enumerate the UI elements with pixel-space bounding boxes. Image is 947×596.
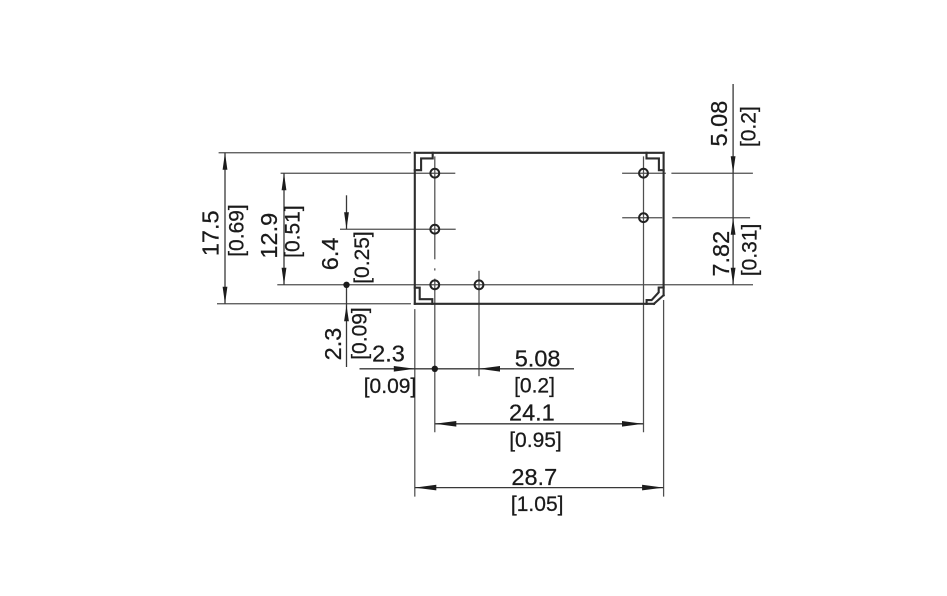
pin hole top-left xyxy=(430,169,439,178)
arrow right 5.08 down xyxy=(731,156,736,173)
wire top hole row right xyxy=(622,172,666,174)
pin hole right-second xyxy=(639,213,648,222)
arrow 17.5 top xyxy=(223,153,228,170)
wire bottom hole row xyxy=(277,284,753,286)
wire top-right step xyxy=(647,153,664,170)
svg-text:[0.2]: [0.2] xyxy=(738,106,761,147)
svg-text:12.9: 12.9 xyxy=(256,213,282,259)
arrow 5.08 horizontal left xyxy=(479,366,500,372)
wire left hole column dot xyxy=(434,268,436,270)
wire top-left step xyxy=(415,153,433,170)
wire case right edge xyxy=(663,153,665,295)
arrow 12.9 bottom xyxy=(282,268,287,285)
dimension lines xyxy=(225,84,733,488)
wire left hole column lower xyxy=(434,279,436,433)
wire top hole row right extension xyxy=(671,172,753,174)
svg-text:[0.25]: [0.25] xyxy=(351,231,374,284)
wire case left edge xyxy=(414,153,416,304)
thin extension / center lines xyxy=(217,153,753,497)
arrow right 7.82 up xyxy=(731,218,736,235)
arrow 6.4 down xyxy=(344,212,349,229)
wire second bottom hole column xyxy=(478,271,480,376)
wire middle hole row xyxy=(340,228,456,230)
wire top hole row left xyxy=(281,172,456,174)
svg-text:2.3: 2.3 xyxy=(320,328,346,361)
wire case chamfer xyxy=(654,295,664,304)
node origin dot bottom xyxy=(432,366,438,372)
wire right dim 5.08/7.82 line xyxy=(732,84,734,285)
wire dim 28.7 line xyxy=(415,487,664,489)
svg-text:5.08: 5.08 xyxy=(706,101,732,147)
pin hole middle-left xyxy=(430,225,439,234)
svg-text:17.5: 17.5 xyxy=(198,210,224,256)
wire dim 2.3/5.08 horizontal line xyxy=(360,368,575,370)
svg-text:[0.09]: [0.09] xyxy=(364,375,417,398)
wire top edge extension xyxy=(219,152,411,154)
arrow 24.1 right xyxy=(622,421,644,427)
node origin dot left xyxy=(343,282,349,288)
svg-text:[0.69]: [0.69] xyxy=(225,204,248,257)
svg-text:5.08: 5.08 xyxy=(515,346,561,372)
svg-text:[1.05]: [1.05] xyxy=(511,493,564,516)
svg-text:7.82: 7.82 xyxy=(708,231,734,277)
svg-text:[0.51]: [0.51] xyxy=(282,205,305,258)
pin hole top-right xyxy=(639,169,648,178)
wire dim 17.5 line xyxy=(224,153,226,304)
wire dim 2.3 vertical leader xyxy=(346,285,348,367)
svg-text:24.1: 24.1 xyxy=(509,400,555,426)
wire dim 12.9 line xyxy=(283,173,285,285)
wire left hole column upper xyxy=(434,156,436,259)
svg-text:[0.95]: [0.95] xyxy=(509,429,562,452)
pin hole bottom-second xyxy=(475,280,484,289)
wire case top edge xyxy=(415,152,664,154)
arrow 2.3 horizontal right xyxy=(394,366,415,372)
wire right second hole row xyxy=(622,217,662,219)
pin holes xyxy=(430,169,647,289)
case outline xyxy=(415,153,664,304)
wire right hole column xyxy=(643,156,645,432)
wire bottom edge extension xyxy=(217,303,411,305)
arrow 2.3 vertical up xyxy=(344,305,349,321)
wire dim 6.4 leader xyxy=(346,195,348,229)
svg-text:6.4: 6.4 xyxy=(317,238,343,271)
arrow 12.9 top xyxy=(282,173,287,190)
wire bottom-left step xyxy=(415,288,433,304)
svg-text:[0.09]: [0.09] xyxy=(348,307,371,360)
wire right edge extension down xyxy=(663,300,665,497)
pin hole bottom-left xyxy=(430,280,439,289)
arrow 24.1 left xyxy=(435,421,457,427)
wire case bottom edge xyxy=(415,303,654,305)
wire right second hole row extension xyxy=(672,217,750,219)
svg-text:2.3: 2.3 xyxy=(372,341,405,367)
arrow 28.7 left xyxy=(415,485,437,491)
arrowheads xyxy=(223,153,736,491)
wire bottom-right step xyxy=(647,288,664,304)
svg-text:[0.31]: [0.31] xyxy=(738,224,761,277)
arrow 17.5 bottom xyxy=(223,287,228,304)
origin dots xyxy=(343,282,438,372)
arrow 28.7 right xyxy=(642,485,664,491)
wire left edge extension down xyxy=(414,309,416,497)
svg-text:28.7: 28.7 xyxy=(511,464,557,490)
wire dim 24.1 line xyxy=(435,423,644,425)
arrow right 7.82 down xyxy=(731,268,736,285)
svg-text:[0.2]: [0.2] xyxy=(514,375,555,398)
